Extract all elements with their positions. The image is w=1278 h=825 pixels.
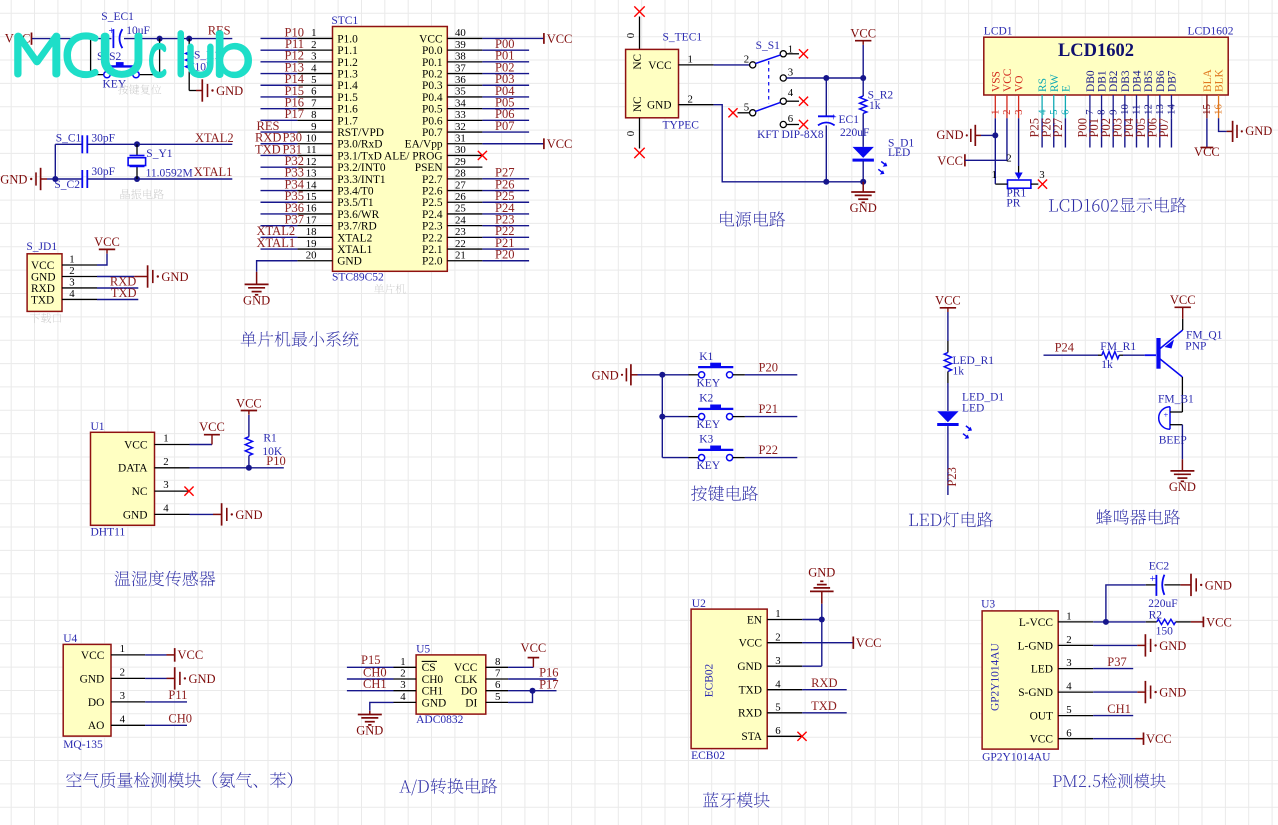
svg-text:LCD1602: LCD1602 bbox=[1188, 26, 1234, 38]
wire pin1 to vcc bbox=[190, 444, 213, 446]
svg-text:XTAL2: XTAL2 bbox=[337, 232, 372, 244]
svg-text:P1.6: P1.6 bbox=[337, 104, 358, 116]
svg-text:29: 29 bbox=[455, 156, 466, 168]
no-connect sw pin1 bbox=[799, 49, 808, 58]
svg-text:DB7: DB7 bbox=[1166, 70, 1178, 92]
svg-text:P2.3: P2.3 bbox=[422, 221, 443, 233]
svg-text:VCC: VCC bbox=[236, 396, 262, 410]
svg-text:7: 7 bbox=[495, 668, 501, 680]
svg-text:38: 38 bbox=[455, 51, 466, 63]
svg-text:P0.0: P0.0 bbox=[422, 45, 443, 57]
svg-text:P3.1/TxD: P3.1/TxD bbox=[337, 150, 382, 162]
svg-text:DB1: DB1 bbox=[1097, 70, 1109, 92]
svg-text:P2.0: P2.0 bbox=[422, 256, 443, 268]
svg-text:1: 1 bbox=[775, 608, 780, 620]
svg-text:20: 20 bbox=[306, 249, 317, 261]
junction bbox=[134, 176, 140, 182]
svg-text:22: 22 bbox=[455, 238, 466, 250]
svg-text:P20: P20 bbox=[759, 360, 778, 374]
svg-text:P2.4: P2.4 bbox=[422, 209, 443, 221]
sensor U4 MQ-135 bbox=[63, 633, 145, 751]
wire P32 bbox=[261, 166, 298, 168]
svg-text:STC1: STC1 bbox=[331, 15, 358, 27]
junction bbox=[860, 179, 866, 185]
resistor S_R2 1k bbox=[860, 89, 894, 113]
svg-text:6: 6 bbox=[1060, 109, 1072, 115]
wire PR1 pin1 up bbox=[994, 183, 996, 185]
ground (crystal) bbox=[0, 168, 47, 190]
svg-text:XTAL1: XTAL1 bbox=[194, 165, 233, 179]
net label RES bbox=[208, 24, 231, 38]
pin 0 bottom bbox=[625, 118, 640, 149]
svg-text:DATA: DATA bbox=[118, 463, 148, 475]
wire P34 bbox=[261, 190, 298, 192]
svg-text:33: 33 bbox=[455, 109, 466, 121]
svg-text:S_C1: S_C1 bbox=[56, 133, 82, 145]
power VCC (R2) bbox=[1203, 615, 1231, 629]
wire TXD/P31 bbox=[261, 154, 298, 156]
wire VCC (bt) bbox=[802, 642, 853, 644]
svg-text:GND: GND bbox=[243, 293, 270, 307]
junction bbox=[659, 414, 665, 420]
svg-text:6: 6 bbox=[311, 86, 317, 98]
svg-text:3: 3 bbox=[163, 479, 168, 491]
wire P22 bbox=[745, 457, 797, 459]
svg-text:2: 2 bbox=[120, 666, 125, 678]
svg-text:P31: P31 bbox=[283, 142, 302, 156]
svg-text:4: 4 bbox=[163, 502, 169, 514]
wire r2 to led bbox=[862, 113, 864, 146]
svg-text:GND: GND bbox=[123, 509, 148, 521]
wire to gnd bbox=[862, 182, 864, 192]
wire sw pin3 to vcc node bbox=[786, 77, 863, 79]
svg-text:R2: R2 bbox=[1149, 610, 1163, 622]
svg-text:CH1: CH1 bbox=[363, 677, 387, 691]
svg-text:5: 5 bbox=[1048, 109, 1060, 114]
caption: A/D converter bbox=[399, 778, 497, 795]
switch K3 KEY bbox=[662, 434, 745, 473]
svg-text:P2.7: P2.7 bbox=[422, 174, 443, 186]
svg-text:5: 5 bbox=[775, 701, 780, 713]
wire XTAL2 bbox=[87, 143, 232, 145]
svg-text:P2.1: P2.1 bbox=[422, 244, 443, 256]
svg-text:GND: GND bbox=[216, 84, 243, 98]
svg-text:GND: GND bbox=[808, 566, 835, 580]
wire P23 bbox=[482, 225, 529, 227]
ground (adc) bbox=[356, 715, 383, 738]
connector S_JD1 bbox=[26, 241, 97, 311]
svg-text:1: 1 bbox=[120, 643, 125, 655]
svg-text:9: 9 bbox=[311, 121, 316, 133]
svg-text:DB6: DB6 bbox=[1155, 70, 1167, 92]
svg-text:KEY: KEY bbox=[697, 419, 721, 431]
switch S2 KEY (reset button) bbox=[91, 39, 160, 91]
wire lcd pin14 bbox=[1170, 118, 1172, 147]
svg-text:11: 11 bbox=[306, 144, 316, 156]
svg-text:R1: R1 bbox=[263, 433, 277, 445]
capacitor S_C1 30pF bbox=[56, 133, 115, 154]
ground (reset) bbox=[202, 79, 243, 101]
svg-text:GND: GND bbox=[1205, 578, 1232, 592]
svg-text:CLK: CLK bbox=[455, 674, 479, 686]
svg-text:P0.3: P0.3 bbox=[422, 80, 443, 92]
svg-text:1: 1 bbox=[687, 54, 692, 66]
wire S_R1 to GND bbox=[189, 72, 202, 91]
svg-text:1: 1 bbox=[69, 254, 74, 266]
ground (power circuit) bbox=[850, 192, 877, 215]
svg-text:VCC: VCC bbox=[935, 294, 961, 308]
svg-text:U4: U4 bbox=[63, 633, 77, 645]
svg-text:L-VCC: L-VCC bbox=[1019, 617, 1053, 629]
svg-text:40: 40 bbox=[455, 27, 466, 39]
resistor LED_R1 1k bbox=[944, 353, 994, 378]
power VCC (bt) bbox=[853, 636, 881, 650]
svg-text:10: 10 bbox=[306, 132, 317, 144]
svg-text:2: 2 bbox=[1066, 634, 1071, 646]
svg-text:S_S1: S_S1 bbox=[756, 40, 781, 52]
net label RXD P30 bbox=[255, 131, 302, 145]
capacitor S_C2 30pF bbox=[54, 166, 115, 191]
capacitor EC2 220uF bbox=[1106, 560, 1191, 622]
wire pin1 to vcc bbox=[145, 654, 175, 656]
caption: LED circuit bbox=[909, 512, 993, 528]
svg-text:8: 8 bbox=[311, 109, 316, 121]
svg-text:VCC: VCC bbox=[199, 420, 225, 434]
wire led to P23 bbox=[947, 426, 949, 495]
svg-text:P1.1: P1.1 bbox=[337, 45, 358, 57]
power VCC (mq) bbox=[175, 648, 204, 662]
power VCC (reset net) bbox=[5, 32, 32, 46]
svg-text:4: 4 bbox=[788, 87, 794, 99]
svg-text:OUT: OUT bbox=[1030, 711, 1053, 723]
svg-text:VCC: VCC bbox=[521, 641, 547, 655]
switch S_S1 KFT DIP-8X8 bbox=[738, 40, 824, 141]
connector S_TEC1 TYPEC bbox=[626, 31, 703, 131]
svg-text:36: 36 bbox=[455, 74, 466, 86]
svg-text:TXD: TXD bbox=[739, 685, 762, 697]
svg-text:GND: GND bbox=[592, 369, 619, 383]
wire VO to PR1 wiper bbox=[1006, 118, 1018, 172]
svg-text:CH1: CH1 bbox=[1107, 702, 1131, 716]
wire LED P37 bbox=[1093, 668, 1133, 670]
svg-text:P0.7: P0.7 bbox=[422, 127, 443, 139]
junction bbox=[52, 176, 58, 182]
svg-text:P2.6: P2.6 bbox=[422, 185, 443, 197]
junction bbox=[819, 617, 825, 623]
wire DATA P10 bbox=[190, 467, 284, 469]
svg-text:2: 2 bbox=[400, 668, 405, 680]
power VCC (buzzer) bbox=[1170, 293, 1196, 319]
svg-text:U3: U3 bbox=[981, 599, 995, 611]
svg-text:4: 4 bbox=[1036, 109, 1048, 115]
svg-text:P3.0/RxD: P3.0/RxD bbox=[337, 139, 382, 151]
LCD pin numbers bbox=[990, 104, 1225, 115]
svg-text:18: 18 bbox=[306, 226, 317, 238]
svg-text:P3.6/WR: P3.6/WR bbox=[337, 209, 379, 221]
wire P02 bbox=[482, 73, 529, 75]
svg-text:15: 15 bbox=[306, 191, 317, 203]
resistor FM_R1 1k bbox=[1098, 341, 1136, 371]
wire lcd pin6 bbox=[1064, 118, 1066, 147]
svg-text:7: 7 bbox=[1084, 109, 1096, 115]
svg-text:NC: NC bbox=[132, 486, 148, 498]
svg-text:P11: P11 bbox=[168, 688, 187, 702]
ground (LCD right) bbox=[1233, 121, 1273, 142]
svg-text:S-GND: S-GND bbox=[1018, 687, 1053, 699]
svg-text:GND: GND bbox=[1159, 639, 1186, 653]
module U3 GP2Y1014AU bbox=[981, 599, 1093, 764]
wire L-GND bbox=[1093, 644, 1145, 646]
power VCC (S_JD1) bbox=[94, 235, 120, 253]
svg-text:3: 3 bbox=[1066, 657, 1071, 669]
wire P21 bbox=[482, 248, 529, 250]
wire P25 bbox=[482, 201, 529, 203]
power VCC (led) bbox=[935, 294, 961, 312]
svg-text:P0.4: P0.4 bbox=[422, 92, 443, 104]
wire XTAL2 (mcu) bbox=[261, 236, 298, 238]
svg-text:E: E bbox=[1060, 85, 1072, 92]
junction bbox=[659, 372, 665, 378]
svg-text:U2: U2 bbox=[692, 598, 706, 610]
svg-text:TXD: TXD bbox=[31, 294, 54, 306]
wire lcd pin13 bbox=[1159, 118, 1161, 147]
wire P20 bbox=[745, 374, 797, 376]
wire P11 bbox=[261, 49, 298, 51]
svg-text:34: 34 bbox=[455, 97, 466, 109]
svg-text:GP2Y1014AU: GP2Y1014AU bbox=[982, 752, 1051, 764]
svg-text:VCC: VCC bbox=[856, 636, 882, 650]
power VCC (pm) bbox=[1144, 732, 1172, 746]
pin1 VCC wire bbox=[679, 54, 750, 66]
svg-text:2: 2 bbox=[1001, 109, 1013, 114]
svg-text:1: 1 bbox=[163, 433, 168, 445]
svg-text:P0.5: P0.5 bbox=[422, 104, 443, 116]
svg-text:35: 35 bbox=[455, 86, 466, 98]
svg-text:GND: GND bbox=[80, 673, 105, 685]
svg-text:STC89C52: STC89C52 bbox=[332, 272, 384, 284]
svg-text:37: 37 bbox=[455, 62, 466, 74]
svg-text:ECB02: ECB02 bbox=[691, 750, 725, 762]
svg-text:11.0592M: 11.0592M bbox=[146, 168, 193, 180]
svg-text:LCD1602: LCD1602 bbox=[1058, 41, 1134, 61]
wire CH1 bbox=[347, 690, 394, 692]
no-connect sw pin6 bbox=[799, 120, 808, 129]
svg-text:LED: LED bbox=[888, 147, 910, 159]
wire P16 bbox=[508, 678, 556, 680]
svg-text:28: 28 bbox=[455, 168, 466, 180]
svg-text:P1.3: P1.3 bbox=[337, 68, 358, 80]
svg-text:XTAL1: XTAL1 bbox=[257, 236, 296, 250]
svg-text:VCC: VCC bbox=[454, 662, 477, 674]
svg-text:P17: P17 bbox=[539, 677, 558, 691]
wire pin2 to GND bbox=[97, 276, 147, 278]
wire BLA to VCC bbox=[1194, 118, 1220, 159]
svg-text:30: 30 bbox=[455, 144, 466, 156]
power VCC (pin31) bbox=[544, 137, 573, 151]
wire GND pin20 bbox=[257, 261, 298, 285]
wire P01 bbox=[482, 61, 529, 63]
svg-text:RXD: RXD bbox=[811, 676, 837, 690]
svg-text:VCC: VCC bbox=[1002, 69, 1014, 92]
svg-text:13: 13 bbox=[306, 168, 317, 180]
junction bbox=[1103, 619, 1109, 625]
no-connect sw pin4 bbox=[799, 97, 808, 106]
wire r1 to data bbox=[248, 456, 250, 468]
svg-text:CH0: CH0 bbox=[168, 712, 192, 726]
svg-text:6: 6 bbox=[775, 725, 781, 737]
svg-text:2: 2 bbox=[775, 631, 780, 643]
svg-text:S_EC1: S_EC1 bbox=[101, 11, 134, 23]
svg-text:GND: GND bbox=[1245, 124, 1272, 138]
wire lcd pin8 bbox=[1101, 118, 1103, 147]
svg-text:VCC: VCC bbox=[178, 648, 204, 662]
potentiometer PR1 bbox=[991, 169, 1044, 210]
svg-text:1k: 1k bbox=[869, 100, 881, 112]
logo MCUclub bbox=[14, 33, 60, 78]
svg-text:1: 1 bbox=[1066, 611, 1071, 623]
svg-text:ALE/ PROG: ALE/ PROG bbox=[384, 150, 443, 162]
svg-text:VCC: VCC bbox=[1194, 145, 1220, 159]
svg-text:3: 3 bbox=[1013, 109, 1025, 114]
svg-text:KFT DIP-8X8: KFT DIP-8X8 bbox=[757, 129, 824, 141]
wire RXD bbox=[97, 287, 138, 289]
MCU U STC1 STC89C52 bbox=[297, 15, 482, 284]
svg-text:15: 15 bbox=[1201, 104, 1213, 115]
switch K2 KEY bbox=[662, 393, 745, 432]
wire gnd to caps bbox=[47, 144, 82, 179]
svg-text:0: 0 bbox=[625, 131, 637, 136]
power VCC (pin40) bbox=[544, 32, 573, 46]
caption: reset (gray) bbox=[118, 84, 161, 94]
svg-text:XTAL1: XTAL1 bbox=[337, 244, 372, 256]
svg-text:VCC: VCC bbox=[419, 33, 442, 45]
svg-text:VSS: VSS bbox=[990, 71, 1002, 92]
caption: download port (gray) bbox=[30, 313, 61, 323]
svg-text:RS: RS bbox=[1037, 78, 1049, 92]
svg-text:13: 13 bbox=[1154, 104, 1166, 115]
caption: LCD1602 display bbox=[1049, 197, 1186, 212]
LCD pins bbox=[995, 95, 1218, 118]
svg-text:1k: 1k bbox=[1101, 359, 1113, 371]
svg-text:3: 3 bbox=[775, 655, 780, 667]
svg-text:17: 17 bbox=[306, 214, 317, 226]
caption: PM2.5 module bbox=[1053, 773, 1166, 788]
svg-text:KEY: KEY bbox=[697, 460, 721, 472]
svg-text:4: 4 bbox=[120, 713, 126, 725]
svg-text:MQ-135: MQ-135 bbox=[63, 739, 103, 751]
svg-text:PR: PR bbox=[1006, 198, 1020, 210]
junction bbox=[992, 132, 998, 138]
svg-text:3: 3 bbox=[69, 277, 74, 289]
svg-text:4: 4 bbox=[311, 62, 317, 74]
svg-text:DB4: DB4 bbox=[1132, 70, 1144, 92]
svg-text:3: 3 bbox=[788, 67, 793, 79]
svg-text:ECB02: ECB02 bbox=[704, 663, 716, 697]
ground (buzzer) bbox=[1169, 471, 1196, 494]
svg-text:FM_B1: FM_B1 bbox=[1158, 394, 1194, 406]
svg-text:2: 2 bbox=[163, 456, 168, 468]
svg-text:TYPEC: TYPEC bbox=[663, 120, 700, 132]
svg-text:P1.4: P1.4 bbox=[337, 80, 358, 92]
svg-text:14: 14 bbox=[1166, 104, 1178, 115]
svg-text:VCC: VCC bbox=[850, 27, 876, 41]
svg-text:P21: P21 bbox=[759, 402, 778, 416]
wire XTAL1 (mcu) bbox=[261, 248, 298, 250]
transistor FM_Q1 PNP bbox=[1156, 319, 1222, 377]
svg-text:EN: EN bbox=[747, 614, 762, 626]
svg-text:NC: NC bbox=[632, 96, 644, 112]
no-connect top (typec) bbox=[634, 6, 644, 16]
svg-text:220uF: 220uF bbox=[840, 127, 869, 139]
svg-text:CH0: CH0 bbox=[422, 674, 444, 686]
wire P15 bbox=[261, 96, 298, 98]
svg-text:EC1: EC1 bbox=[839, 114, 860, 126]
svg-text:P3.4/T0: P3.4/T0 bbox=[337, 185, 374, 197]
wire TXD->RXD bbox=[802, 689, 846, 691]
svg-text:TXD: TXD bbox=[255, 142, 281, 156]
svg-text:P0.2: P0.2 bbox=[422, 68, 443, 80]
svg-text:10: 10 bbox=[1119, 104, 1131, 115]
svg-text:P37: P37 bbox=[1107, 655, 1126, 669]
svg-text:12: 12 bbox=[1142, 104, 1154, 115]
LED LED_D1 bbox=[937, 392, 1004, 439]
power VCC (adc) bbox=[508, 641, 546, 667]
svg-text:RW: RW bbox=[1049, 74, 1061, 92]
svg-text:1k: 1k bbox=[953, 366, 965, 378]
svg-text:GND: GND bbox=[1159, 686, 1186, 700]
module U2 ECB02 bbox=[691, 598, 802, 762]
wire gnd (adc) bbox=[370, 702, 394, 714]
svg-text:+: + bbox=[831, 112, 837, 124]
wire VSS down to PR1 bbox=[994, 118, 996, 184]
svg-text:7: 7 bbox=[311, 97, 317, 109]
svg-text:1: 1 bbox=[990, 109, 1002, 114]
wire pin4 to gnd bbox=[190, 513, 222, 515]
wire P10 bbox=[261, 37, 298, 39]
svg-text:BLK: BLK bbox=[1214, 68, 1226, 92]
svg-text:2: 2 bbox=[1006, 153, 1011, 165]
net label TXD P31 bbox=[255, 142, 302, 156]
svg-text:FM_R1: FM_R1 bbox=[1100, 341, 1136, 353]
svg-text:S_C2: S_C2 bbox=[54, 179, 80, 191]
svg-text:DHT11: DHT11 bbox=[91, 527, 126, 539]
capacitor EC1 220uF bbox=[818, 78, 869, 182]
svg-text:25: 25 bbox=[455, 203, 466, 215]
svg-text:VCC: VCC bbox=[1146, 732, 1172, 746]
svg-text:DO: DO bbox=[88, 697, 104, 709]
svg-text:GND: GND bbox=[1169, 480, 1196, 494]
svg-text:DB3: DB3 bbox=[1120, 70, 1132, 92]
svg-text:1: 1 bbox=[991, 169, 996, 181]
wire L-VCC node bbox=[1093, 621, 1157, 623]
wire pin1 to VCC bbox=[97, 254, 107, 265]
wire DO P11 bbox=[145, 701, 187, 703]
buzzer FM_B1 BEEP bbox=[1158, 394, 1194, 447]
caption: temp/humidity sensor bbox=[114, 571, 215, 587]
svg-text:21: 21 bbox=[455, 249, 466, 261]
svg-text:EC2: EC2 bbox=[1149, 560, 1170, 572]
svg-text:4: 4 bbox=[775, 678, 781, 690]
svg-text:P22: P22 bbox=[759, 443, 778, 457]
wire S-GND bbox=[1093, 691, 1145, 693]
ground (LCD left) bbox=[936, 125, 981, 146]
no-connect STA bbox=[797, 732, 806, 741]
svg-text:NC: NC bbox=[632, 54, 644, 70]
svg-text:XTAL2: XTAL2 bbox=[195, 131, 234, 145]
svg-text:3: 3 bbox=[1039, 169, 1044, 181]
LCD pin names bbox=[990, 68, 1225, 92]
svg-text:30pF: 30pF bbox=[91, 133, 115, 145]
